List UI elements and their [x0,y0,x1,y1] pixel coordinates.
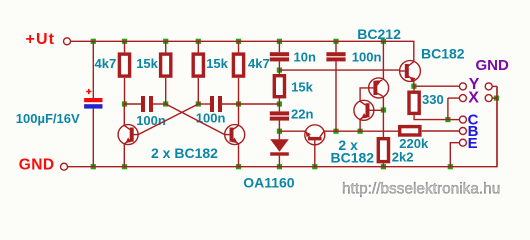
wire [238,41,240,52]
junction on ground rail [91,164,96,169]
resistor 220k [400,127,420,135]
resistor 330 [409,92,419,113]
wire [448,119,460,121]
transistor Q4 BC182 [354,100,374,120]
wire [153,103,166,105]
junction [196,101,201,106]
wire [374,109,383,111]
capacitor 100uF positive plate [84,98,102,102]
junction [122,101,127,106]
junction [381,107,386,112]
junction on ground rail [277,164,282,169]
terminal E [459,139,466,146]
svg-text:4k7: 4k7 [95,56,117,71]
junction [445,117,450,122]
terminal C [459,116,466,123]
wire [414,85,460,87]
transistor Q5 BC182 [369,78,389,98]
svg-text:E: E [468,135,478,152]
wire [450,143,459,167]
terminal Y right [485,83,492,90]
capacitor 100uF negative plate [84,104,102,108]
wire [413,80,415,86]
junction [122,39,127,44]
wire [382,163,384,166]
transistor Q1 BC182 [118,125,138,145]
wire [360,88,369,101]
junction [333,39,338,44]
junction [163,101,168,106]
capacitor 100n third [326,52,345,61]
wire [382,110,384,137]
wire [165,78,167,104]
terminal GND [61,163,68,170]
wire [335,41,337,52]
terminal X left [459,95,466,102]
wire [92,41,94,98]
wire [448,97,460,99]
wire [278,121,280,140]
wire [278,41,280,52]
junction on ground rail [381,164,386,169]
junction [333,129,338,134]
svg-text:GND: GND [19,156,55,173]
junction [196,39,201,44]
transistor Q3 BC182 [305,125,325,145]
wire [124,41,126,52]
svg-text:15k: 15k [291,80,313,95]
svg-text:100n: 100n [196,111,226,126]
resistor 2k2 [378,139,388,162]
wire [492,97,497,99]
svg-text:100n: 100n [352,50,382,65]
wire [239,103,280,105]
svg-text:4k7: 4k7 [248,56,270,71]
junction [236,39,241,44]
capacitor 22n [270,111,289,120]
wire [278,98,280,111]
wire [124,78,126,104]
wire [165,41,167,52]
junction on ground rail [448,164,453,169]
junction [277,68,282,73]
junction [494,96,499,101]
wire [238,104,240,125]
junction on ground rail [122,164,127,169]
capacitor 10n [270,52,289,61]
wire [447,98,449,120]
wire [324,130,398,132]
junction [163,39,168,44]
wire cross coupling to Q1 base [138,104,198,135]
svg-text:100µF/16V: 100µF/16V [16,111,80,126]
wire [414,115,448,120]
wire [314,145,316,167]
wire [197,78,199,104]
wire [238,144,240,167]
svg-text:10n: 10n [294,50,316,65]
plus sign [86,89,91,94]
wire [222,103,239,105]
svg-text:330: 330 [422,92,444,107]
resistor 15k [161,54,171,76]
wire [238,78,240,104]
capacitor 100n second [210,96,222,112]
svg-text:http://bsselektronika.hu: http://bsselektronika.hu [342,180,500,197]
junction [411,84,416,89]
junction [358,129,363,134]
wire [382,96,384,110]
wire [492,85,497,87]
terminal B [459,128,466,135]
wire [279,130,305,132]
wire [197,41,199,52]
resistor 15k second [193,54,203,76]
svg-text:220k: 220k [399,136,429,151]
junction on ground rail [312,164,317,169]
capacitor 100n first [141,96,153,112]
svg-text:BC212: BC212 [357,26,401,42]
wire cross coupling to Q2 base [166,104,225,135]
wire [382,41,384,80]
wire [123,104,125,125]
wire [413,86,415,90]
wire [125,103,142,105]
terminal Y left [459,83,466,90]
transistor Q2 BC182 [225,125,245,145]
wire [278,61,280,74]
svg-text:2k2: 2k2 [392,149,414,164]
transistor Q6 BC212 [400,61,421,83]
svg-text:+Ut: +Ut [26,31,56,48]
wire [279,69,399,71]
wire [123,144,125,167]
resistor 4k7 [119,54,129,76]
svg-text:GND: GND [476,57,510,74]
svg-text:100n: 100n [136,113,166,128]
terminal X right [485,95,492,102]
resistor 4k7 second [233,54,243,76]
svg-text:BC182: BC182 [421,46,465,62]
junction [91,39,96,44]
junction [277,101,282,106]
junction [277,129,282,134]
wire +Ut rail [70,41,414,61]
svg-text:2 x BC182: 2 x BC182 [151,145,218,161]
junction [381,39,386,44]
svg-text:22n: 22n [291,106,313,121]
junction on ground rail [236,164,241,169]
junction [236,101,241,106]
wire [198,103,210,105]
svg-text:15k: 15k [136,56,158,71]
wire ground rail [67,86,497,166]
svg-text:OA1160: OA1160 [243,175,295,191]
svg-text:X: X [468,90,479,107]
resistor 15k third [274,76,284,97]
wire [359,119,361,131]
wire [422,130,460,132]
diode OA1160 [270,139,289,155]
terminal +Ut [64,38,71,45]
svg-text:15k: 15k [206,56,228,71]
junction [277,39,282,44]
wire [92,109,94,167]
wire output ground link [496,86,498,166]
wire [278,156,280,167]
svg-text:BC182: BC182 [331,149,375,165]
wire [335,61,337,131]
